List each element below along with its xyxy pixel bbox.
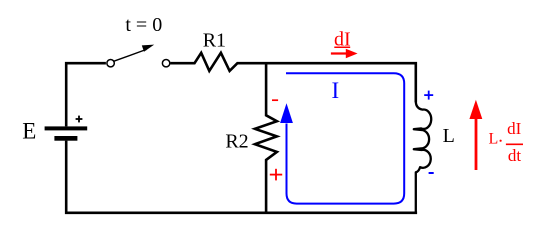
wire + resistor R1 zigzag + top rail to right corner + right drop — [171, 53, 416, 103]
label L dot (red) — [489, 130, 502, 147]
battery E plate - (short) — [54, 136, 77, 141]
svg-text:E: E — [22, 118, 36, 143]
svg-text:L: L — [489, 130, 499, 147]
inductor L coil — [414, 101, 431, 213]
switch arm arrowhead — [142, 45, 154, 52]
svg-text:R2: R2 — [225, 130, 248, 152]
dI direction arrow (red) — [331, 49, 358, 58]
L dI/dt arrow (red, vertical) — [469, 100, 482, 170]
svg-text:L: L — [443, 125, 455, 147]
switch right contact circle — [162, 60, 169, 67]
label R1 — [203, 29, 226, 51]
svg-text:R1: R1 — [203, 29, 226, 51]
svg-text:I: I — [331, 78, 339, 103]
fraction denominator dt (red) — [508, 146, 522, 165]
wire: top-left rail and left upper drop to battery — [66, 63, 106, 126]
wire + resistor R2 branch (vertical zigzag) — [255, 63, 277, 213]
R2 polarity + (red) — [270, 169, 282, 181]
switch left contact circle — [107, 60, 114, 67]
label I (blue) — [331, 78, 339, 103]
svg-text:t = 0: t = 0 — [125, 14, 162, 36]
current loop I (blue rounded path) — [286, 73, 404, 203]
inductor polarity + (blue) — [424, 91, 433, 100]
label dI (red, underlined) — [334, 29, 351, 51]
fraction numerator dI (red) — [507, 119, 522, 138]
svg-text:dt: dt — [508, 146, 522, 165]
battery polarity + mark — [76, 116, 83, 123]
R2 polarity - (red) — [272, 99, 278, 101]
label R2 — [225, 130, 248, 152]
switch arm — [114, 49, 147, 61]
svg-text:dI: dI — [507, 119, 522, 138]
current loop arrowhead (blue) — [280, 103, 293, 123]
inductor polarity - (blue) — [429, 172, 434, 174]
label L — [443, 125, 455, 147]
label E — [22, 118, 36, 143]
wire: left lower drop and bottom rail — [66, 141, 417, 213]
fraction bar (red) — [506, 143, 523, 145]
battery E plate + (long) — [45, 126, 88, 130]
label t = 0 — [125, 14, 162, 36]
dI underline (red) — [334, 46, 350, 48]
